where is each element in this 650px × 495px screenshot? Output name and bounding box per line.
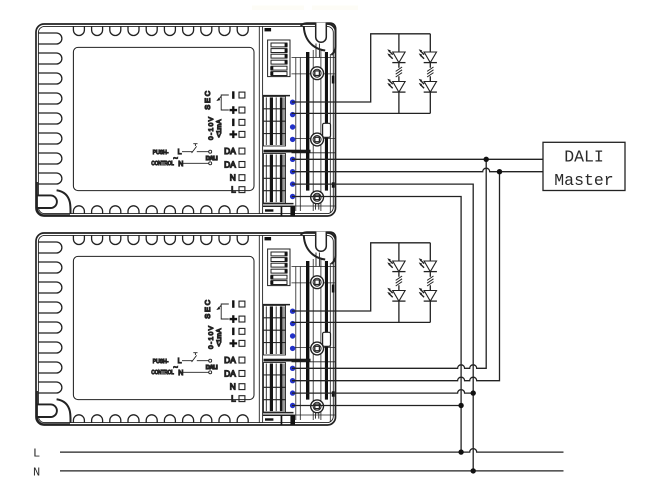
wire L driver2 to L drop xyxy=(292,405,461,407)
svg-text:N: N xyxy=(33,465,40,479)
wire DA2 driver2 up to DA2 node (hops at 461.1 and 473.2) xyxy=(292,172,500,381)
wire N driver2 to N drop (hop at 461.1) xyxy=(292,390,473,393)
faint watermark xyxy=(252,6,304,11)
svg-text:L: L xyxy=(33,447,40,461)
N bus line xyxy=(60,470,564,472)
wire L driver1 to L bus xyxy=(292,197,461,453)
wire DA1 driver1 to DALI master xyxy=(292,158,543,160)
LED module 2 xyxy=(292,243,437,323)
wire N driver1 to N bus xyxy=(292,184,473,471)
wire DA1 driver2 up to DA1 node (hops at 461.1 and 473.2) xyxy=(292,159,486,368)
junction node N bus xyxy=(471,468,476,473)
wire DA2 driver1 to DALI master (hop at x=486.2) xyxy=(292,168,543,171)
driver U2 xyxy=(36,232,336,425)
LED module 1 xyxy=(292,34,437,114)
L bus line (hop at 473.2) xyxy=(60,449,564,453)
svg-text:Master: Master xyxy=(554,171,613,190)
svg-text:DALI: DALI xyxy=(564,148,604,167)
junction node DA1 xyxy=(484,157,489,162)
driver U1 xyxy=(36,23,336,216)
junction node L bus xyxy=(458,449,463,454)
DALI Master box xyxy=(543,142,625,190)
junction node N driver2 xyxy=(471,390,476,395)
junction node DA2 xyxy=(497,169,502,174)
junction node L driver2 xyxy=(458,403,463,408)
